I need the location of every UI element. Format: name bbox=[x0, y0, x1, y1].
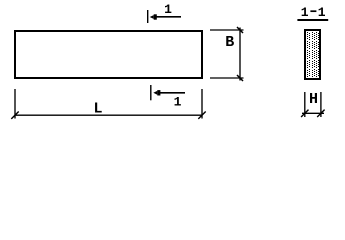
dimension H label bbox=[309, 91, 318, 108]
dimension L tick left bbox=[11, 112, 18, 119]
dimension L line bbox=[15, 114, 202, 116]
dimension B extension line top bbox=[210, 29, 244, 31]
dimension H extension line left bbox=[304, 92, 306, 117]
svg-text:L: L bbox=[93, 100, 102, 117]
dimension B extension line bottom bbox=[210, 77, 244, 79]
section cut mark 1 (top) bbox=[148, 2, 181, 23]
dimension L label bbox=[93, 100, 102, 117]
dimension H extension line right bbox=[320, 92, 322, 117]
dimension B tick top bbox=[237, 27, 243, 33]
dimension L extension line left bbox=[14, 89, 16, 119]
svg-text:1: 1 bbox=[318, 5, 326, 20]
svg-text:1: 1 bbox=[174, 95, 182, 110]
svg-text:1: 1 bbox=[301, 5, 309, 20]
section cut mark 1 (bottom) bbox=[151, 85, 185, 110]
dimension L tick right bbox=[198, 112, 205, 119]
dimension H line bbox=[302, 112, 324, 114]
dimension H tick left bbox=[301, 110, 308, 117]
svg-text:H: H bbox=[309, 91, 318, 108]
section view title 1-1 bbox=[297, 5, 328, 20]
dimension L extension line right bbox=[201, 89, 203, 119]
section cross-section rectangle with stipple hatch bbox=[305, 30, 320, 79]
beam elevation outline bbox=[15, 31, 202, 78]
svg-text:1: 1 bbox=[164, 2, 172, 17]
dimension B tick bottom bbox=[237, 75, 243, 81]
dimension B label bbox=[225, 34, 234, 51]
dimension B line bbox=[239, 28, 241, 81]
svg-text:B: B bbox=[225, 34, 234, 51]
dimension H tick right bbox=[317, 110, 324, 117]
